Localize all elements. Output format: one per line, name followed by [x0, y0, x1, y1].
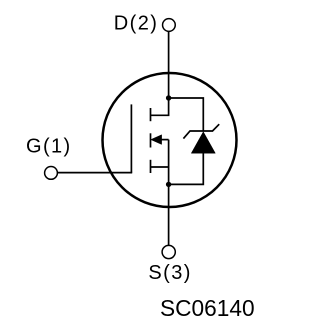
diode D1 zener cathode bar: [183, 124, 219, 138]
diode D1 body-drain anode triangle: [191, 132, 215, 153]
wire source lead to channel: [151, 166, 169, 168]
channel segment drain: [150, 108, 152, 121]
body arrow of MOSFET: [151, 135, 162, 145]
svg-text:D(2): D(2): [114, 13, 159, 35]
transistor envelope circle: [103, 73, 237, 207]
node source junction dot: [166, 182, 171, 187]
channel segment source: [150, 160, 152, 173]
svg-text:S(3): S(3): [148, 262, 191, 284]
wire drain lead to channel: [151, 98, 169, 115]
wire body arrow to source line: [161, 139, 169, 141]
svg-text:SC06140: SC06140: [160, 295, 255, 321]
gate electrode line: [130, 104, 132, 172]
node drain junction dot: [166, 95, 171, 100]
terminal G pin 1: [45, 167, 58, 180]
wire diode anode to source node: [169, 153, 204, 184]
terminal D pin 2: [163, 19, 176, 32]
svg-text:G(1): G(1): [26, 135, 72, 157]
wire source vertical line: [168, 140, 170, 246]
wire drain terminal to node: [168, 31, 170, 98]
terminal S pin 3: [162, 245, 175, 258]
wire gate terminal to electrode: [57, 172, 132, 174]
channel segment body: [150, 133, 152, 147]
wire node to diode cathode branch: [169, 98, 204, 131]
